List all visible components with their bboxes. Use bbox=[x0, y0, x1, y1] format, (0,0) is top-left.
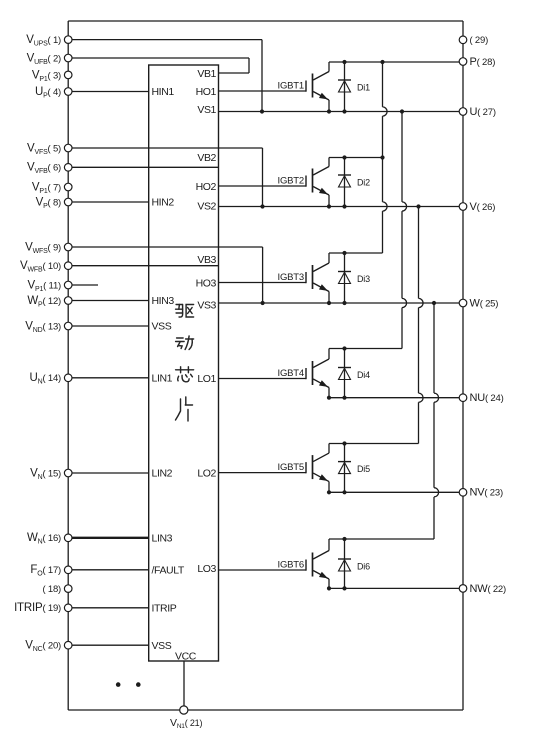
svg-text:IGBT2: IGBT2 bbox=[278, 176, 304, 187]
wire LO3 to IGBT6 gate bbox=[219, 569, 307, 571]
svg-text:P( 28): P( 28) bbox=[470, 56, 496, 68]
wire pin 10 to chip bbox=[68, 265, 218, 267]
svg-text:VS3: VS3 bbox=[197, 300, 216, 312]
diode Di3 bbox=[338, 253, 351, 303]
wire pin 12 to chip bbox=[68, 300, 149, 302]
wire P bus drop to IGBT2/IGBT3 collectors (hops U,V) bbox=[382, 62, 384, 107]
svg-text:VP( 8): VP( 8) bbox=[36, 196, 61, 210]
svg-text:IGBT6: IGBT6 bbox=[278, 560, 304, 571]
wire NW net bbox=[329, 587, 463, 589]
node V / IGBT2 emitter bbox=[327, 204, 331, 208]
pin 17 terminal bbox=[64, 566, 72, 574]
transistor IGBT4 bbox=[306, 349, 329, 398]
diode Di6 bbox=[338, 539, 351, 588]
pin 4 terminal bbox=[64, 88, 72, 96]
wire pin 4 to chip bbox=[68, 91, 149, 93]
transistor IGBT3 bbox=[306, 253, 329, 303]
pin 21 terminal bbox=[180, 706, 188, 714]
wire pin 17 to chip bbox=[68, 569, 149, 571]
wire pin 20 to chip bbox=[68, 644, 149, 646]
wire pin 14 to chip bbox=[68, 377, 149, 379]
transistor IGBT2 bbox=[306, 158, 329, 207]
wire pin 15 to chip bbox=[68, 472, 149, 474]
svg-text:VUPS( 1): VUPS( 1) bbox=[26, 34, 61, 48]
wire V_UFB(2) loop down to VB1 bbox=[248, 58, 250, 73]
svg-text:VUFB( 2): VUFB( 2) bbox=[27, 52, 61, 66]
wire HO3 to IGBT3 gate bbox=[219, 282, 307, 284]
wire VS1/U net bbox=[219, 111, 464, 113]
pin 14 terminal bbox=[64, 374, 72, 382]
node IGBT2 rail / Di2 bbox=[342, 155, 346, 159]
svg-text:LO3: LO3 bbox=[197, 563, 216, 575]
wire V net drop to IGBT5 collector (hops W,NU) bbox=[418, 207, 420, 299]
svg-text:FO( 17): FO( 17) bbox=[30, 564, 61, 578]
node NW / IGBT6 emitter bbox=[327, 586, 331, 590]
pin 15 terminal bbox=[64, 469, 72, 477]
svg-text:W( 25): W( 25) bbox=[470, 297, 499, 309]
svg-text:VSS: VSS bbox=[152, 640, 172, 652]
chip name text 动 bbox=[176, 336, 194, 350]
module outline bottom border (wire) bbox=[68, 709, 463, 711]
pin 1 terminal bbox=[64, 36, 72, 44]
svg-text:Di6: Di6 bbox=[357, 562, 370, 572]
node IGBT6 rail / Di6 bbox=[342, 537, 346, 541]
node U / feed B bbox=[400, 109, 404, 113]
wire pin 16 to chip bbox=[68, 537, 149, 539]
wire VS3/W net bbox=[219, 302, 464, 304]
svg-text:VND( 13): VND( 13) bbox=[25, 320, 61, 334]
wire NU net bbox=[329, 397, 463, 399]
diode Di2 bbox=[338, 158, 351, 207]
svg-text:VS2: VS2 bbox=[197, 201, 216, 213]
svg-text:LO2: LO2 bbox=[197, 467, 216, 479]
pin 27 terminal bbox=[459, 108, 467, 116]
diode Di4 bbox=[338, 349, 351, 398]
svg-text:VN( 15): VN( 15) bbox=[30, 467, 61, 481]
node IGBT5 rail / Di5 bbox=[342, 441, 346, 445]
ellipsis dots bbox=[116, 682, 121, 687]
pin 20 terminal bbox=[64, 641, 72, 649]
svg-text:NV( 23): NV( 23) bbox=[470, 487, 503, 499]
svg-text:LIN2: LIN2 bbox=[152, 468, 173, 480]
wire LO2 to IGBT5 gate bbox=[219, 472, 307, 474]
wire VCC to pin 21 bbox=[183, 661, 185, 710]
svg-text:( 18): ( 18) bbox=[42, 584, 61, 595]
svg-text:HO1: HO1 bbox=[196, 86, 217, 98]
node NV / Di5 anode bbox=[342, 490, 346, 494]
svg-text:VSS: VSS bbox=[152, 321, 172, 333]
wire pin 13 to chip bbox=[68, 325, 149, 327]
pin 2 terminal bbox=[64, 54, 72, 62]
node IGBT4 rail / Di4 bbox=[342, 346, 346, 350]
wire pin 6 to chip bbox=[68, 166, 218, 168]
wire pin 19 to chip bbox=[68, 607, 149, 609]
svg-text:V( 26): V( 26) bbox=[470, 201, 496, 213]
node W / V_WFS drop bbox=[261, 301, 265, 305]
svg-text:/FAULT: /FAULT bbox=[152, 565, 185, 577]
wire pin 5 to chip bbox=[68, 147, 262, 149]
svg-text:IGBT5: IGBT5 bbox=[278, 462, 304, 473]
svg-text:VP1( 3): VP1( 3) bbox=[32, 69, 61, 83]
node W / IGBT3 emitter bbox=[327, 301, 331, 305]
wire LO1 to IGBT4 gate bbox=[219, 378, 307, 380]
svg-text:HO2: HO2 bbox=[196, 181, 217, 193]
node IGBT2 rail / feed A bbox=[380, 155, 384, 159]
pin 28 terminal bbox=[459, 58, 467, 66]
pin 16 terminal bbox=[64, 534, 72, 542]
svg-text:( 29): ( 29) bbox=[470, 35, 489, 46]
pin 10 terminal bbox=[64, 262, 72, 270]
wire W net drop to IGBT6 collector (hops NU,NV) bbox=[433, 303, 435, 393]
pin 3 terminal bbox=[64, 71, 72, 79]
module outline left pin bus (wire) bbox=[67, 21, 69, 710]
wire IGBT5 collector rail bbox=[329, 443, 419, 445]
svg-text:VS1: VS1 bbox=[197, 104, 216, 116]
node IGBT3 rail / Di3 bbox=[342, 251, 346, 255]
wire IGBT2 collector rail bbox=[329, 157, 383, 159]
svg-text:HIN1: HIN1 bbox=[152, 86, 175, 98]
node V / Di2 anode bbox=[342, 204, 346, 208]
svg-text:HIN2: HIN2 bbox=[152, 197, 175, 209]
svg-text:ITRIP( 19): ITRIP( 19) bbox=[14, 602, 61, 614]
node NV / IGBT5 emitter bbox=[327, 490, 331, 494]
svg-text:U( 27): U( 27) bbox=[470, 106, 496, 118]
node NU / IGBT4 emitter bbox=[327, 396, 331, 400]
svg-text:NW( 22): NW( 22) bbox=[470, 583, 507, 595]
svg-text:VVFB( 6): VVFB( 6) bbox=[27, 162, 61, 176]
wire HO2 to IGBT2 gate bbox=[219, 185, 307, 187]
pin 7 terminal bbox=[64, 183, 72, 191]
pin 29 terminal bbox=[459, 36, 467, 44]
node P bus / feed A bbox=[380, 60, 384, 64]
svg-text:LO1: LO1 bbox=[197, 373, 216, 385]
svg-text:VN1( 21): VN1( 21) bbox=[170, 717, 202, 730]
pin 9 terminal bbox=[64, 243, 72, 251]
chip name text 片 bbox=[176, 397, 193, 421]
wire IGBT3 collector rail bbox=[329, 252, 383, 254]
svg-text:VWFB( 10): VWFB( 10) bbox=[20, 260, 61, 274]
transistor IGBT5 bbox=[306, 444, 329, 493]
wire pin 11 to chip bbox=[68, 284, 98, 286]
node W / feed D bbox=[432, 301, 436, 305]
node V / V_VFS drop bbox=[260, 204, 264, 208]
pin 26 terminal bbox=[459, 203, 467, 211]
svg-text:NU( 24): NU( 24) bbox=[470, 392, 504, 404]
svg-text:VNC( 20): VNC( 20) bbox=[25, 640, 61, 654]
chip name text 驱 bbox=[176, 305, 194, 318]
wire HO1 to IGBT1 gate bbox=[219, 90, 307, 92]
pin 6 terminal bbox=[64, 164, 72, 172]
pin 24 terminal bbox=[459, 394, 467, 402]
node U / V_UPS drop bbox=[260, 109, 264, 113]
pin 23 terminal bbox=[459, 489, 467, 497]
pin 5 terminal bbox=[64, 144, 72, 152]
pin 12 terminal bbox=[64, 297, 72, 305]
svg-text:ITRIP: ITRIP bbox=[152, 603, 177, 615]
pin 11 terminal bbox=[64, 281, 72, 289]
module outline right edge (wire) bbox=[462, 21, 464, 710]
transistor IGBT1 bbox=[306, 62, 329, 112]
chip name text 芯 bbox=[176, 367, 194, 382]
wire V_VFS(5) drop to VS2/V net bbox=[262, 148, 264, 207]
wire V_WFS(9) drop to VS3/W net bbox=[262, 247, 264, 303]
node NU / Di4 anode bbox=[342, 396, 346, 400]
svg-text:HO3: HO3 bbox=[196, 278, 217, 290]
pin 18 terminal bbox=[64, 585, 72, 593]
svg-text:Di4: Di4 bbox=[357, 370, 370, 380]
transistor IGBT6 bbox=[306, 539, 329, 588]
pin 22 terminal bbox=[459, 585, 467, 593]
svg-text:WN( 16): WN( 16) bbox=[27, 532, 61, 546]
svg-text:VP1( 7): VP1( 7) bbox=[32, 181, 61, 195]
svg-text:IGBT3: IGBT3 bbox=[278, 272, 304, 283]
node U / Di1 anode bbox=[342, 109, 346, 113]
svg-text:IGBT1: IGBT1 bbox=[278, 81, 304, 92]
pin 13 terminal bbox=[64, 322, 72, 330]
wire VB1 stub bbox=[219, 72, 250, 74]
wire IGBT4 collector rail bbox=[329, 348, 402, 350]
wire VS2/V net bbox=[219, 206, 464, 208]
wire pin 8 to chip bbox=[68, 201, 149, 203]
svg-text:Di1: Di1 bbox=[357, 83, 370, 93]
pin 25 terminal bbox=[459, 299, 467, 307]
svg-text:LIN1: LIN1 bbox=[152, 373, 173, 385]
node P bus / Di1 bbox=[342, 60, 346, 64]
svg-text:UP( 4): UP( 4) bbox=[35, 86, 61, 100]
svg-text:HIN3: HIN3 bbox=[152, 295, 175, 307]
svg-text:WP( 12): WP( 12) bbox=[27, 295, 61, 309]
svg-text:VVFS( 5): VVFS( 5) bbox=[27, 142, 61, 156]
node NW / Di6 anode bbox=[342, 586, 346, 590]
wire pin 2 to chip bbox=[68, 57, 249, 59]
wire pin 1 to chip bbox=[68, 39, 262, 41]
wire NV net bbox=[329, 491, 463, 493]
svg-text:VP1( 11): VP1( 11) bbox=[28, 279, 62, 293]
svg-text:UN( 14): UN( 14) bbox=[29, 372, 61, 386]
module outline top border (wire) bbox=[68, 20, 463, 22]
svg-text:VB3: VB3 bbox=[197, 254, 216, 266]
svg-text:VCC: VCC bbox=[175, 651, 197, 663]
svg-text:Di5: Di5 bbox=[357, 464, 370, 474]
driver chip U1 (驱动芯片) bbox=[149, 65, 219, 661]
svg-text:Di3: Di3 bbox=[357, 274, 370, 284]
svg-text:VWFS( 9): VWFS( 9) bbox=[25, 241, 61, 255]
wire IGBT1 collector rail bbox=[329, 61, 463, 63]
svg-text:VB2: VB2 bbox=[197, 152, 216, 164]
wire V_UPS(1) drop to VS1/U net bbox=[261, 40, 263, 112]
node V / feed C bbox=[416, 204, 420, 208]
wire U net drop to IGBT4 collector (hops V,W) bbox=[401, 112, 403, 202]
svg-text:VB1: VB1 bbox=[197, 68, 216, 80]
svg-text:Di2: Di2 bbox=[357, 178, 370, 188]
pin 19 terminal bbox=[64, 604, 72, 612]
pin 8 terminal bbox=[64, 198, 72, 206]
wire IGBT6 collector rail bbox=[329, 538, 434, 540]
node W / Di3 anode bbox=[342, 301, 346, 305]
svg-text:LIN3: LIN3 bbox=[152, 533, 173, 545]
svg-text:IGBT4: IGBT4 bbox=[278, 368, 304, 379]
wire pin 9 to chip bbox=[68, 246, 262, 248]
diode Di1 bbox=[338, 62, 351, 112]
node U / IGBT1 emitter bbox=[327, 109, 331, 113]
diode Di5 bbox=[338, 444, 351, 493]
